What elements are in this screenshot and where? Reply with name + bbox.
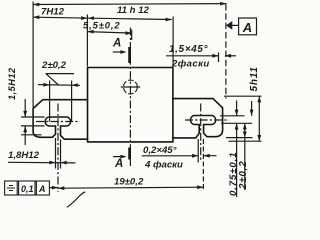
center line vertical through hole (129, 28, 131, 167)
svg-text:11 h 12: 11 h 12 (117, 5, 149, 16)
0,75 arrows (235, 110, 239, 116)
svg-text:4 фаски: 4 фаски (144, 160, 183, 171)
5h11 dimension vertical (258, 96, 260, 141)
svg-text:1,5×45°: 1,5×45° (169, 44, 208, 55)
svg-text:7H12: 7H12 (41, 7, 65, 18)
inspection squiggle (67, 192, 85, 208)
1,5x45 right tail (225, 55, 236, 57)
section plane thick strokes (128, 47, 131, 160)
2+-0,2 converging arrows (43, 83, 49, 87)
7H12 arrows (33, 15, 39, 19)
svg-text:19±0,2: 19±0,2 (114, 177, 144, 188)
5,5 right extension tick (131, 30, 133, 41)
tolerance frame bottom left (5, 181, 50, 195)
overall top dimension line (33, 3, 226, 6)
1,5H12 arrows (23, 111, 27, 117)
0,2x45 converging arrows (192, 154, 198, 158)
11h12 arrows (88, 16, 94, 20)
overall dim arrows (33, 3, 39, 7)
svg-text:1,8H12: 1,8H12 (8, 150, 40, 161)
1,5H12 dimension line vertical (24, 99, 26, 145)
section line bottom arrow shaft (113, 156, 124, 158)
extra right dim line upper (251, 101, 253, 116)
right slot edge extensions down (197, 139, 199, 163)
2+-0,2 extension lines (50, 81, 72, 122)
1,5x45 converging arrows (212, 54, 218, 58)
svg-text:A: A (38, 184, 46, 194)
hole crosshair horizontal (121, 86, 140, 88)
1,5x45 short ext tick (218, 53, 220, 63)
datum frame box A (239, 18, 257, 35)
left ear slot obround (45, 117, 70, 126)
body left edge extension (86, 15, 88, 67)
right ear outline (173, 99, 223, 138)
section line top arrow shaft (113, 51, 124, 53)
svg-text:0,2×45°: 0,2×45° (143, 145, 177, 156)
7H12 / 11h12 chained dimension line (33, 17, 172, 19)
right ext line ear bottom (226, 137, 253, 139)
1,8H12 dimension line (8, 161, 75, 164)
frame leader arrow (52, 186, 58, 190)
svg-text:2±0,2: 2±0,2 (238, 161, 249, 190)
datum extension dashed line right (225, 4, 227, 99)
thin line work (8, 2, 262, 208)
svg-text:2фаски: 2фаски (171, 59, 210, 70)
2+-0,2 right dimension vertical (244, 123, 246, 190)
right ext line body bottom (229, 140, 262, 142)
5h11 arrows (257, 96, 261, 102)
datum link line (232, 24, 239, 26)
0,75 dimension vertical (236, 101, 238, 198)
right slot edge ext extended to 19-dim (202, 139, 204, 191)
section arrows (120, 50, 126, 54)
0,2x45 underline leader (142, 155, 217, 157)
right slot axis horizontal (185, 119, 229, 121)
5,5 arrows (87, 30, 93, 34)
right ext line obround top (220, 115, 245, 117)
right slot axis vertical (200, 104, 202, 163)
extra right dim arrow (250, 110, 254, 116)
left slot axis horizontal (36, 121, 80, 123)
right ear slot obround (190, 116, 215, 125)
symmetry symbol (7, 186, 15, 191)
svg-text:5h11: 5h11 (249, 66, 260, 91)
1,5x45 note shelf (166, 55, 219, 57)
svg-text:2±0,2: 2±0,2 (41, 60, 67, 71)
arrowheads (23, 2, 261, 190)
svg-text:0,1: 0,1 (21, 184, 34, 194)
left ear outline (33, 100, 87, 140)
datum triangle (226, 21, 232, 30)
svg-text:A: A (114, 158, 123, 170)
left part edge extension x=33 (32, 2, 34, 108)
2+-0,2 dimension line (38, 84, 80, 87)
svg-text:A: A (112, 38, 121, 50)
hidden hole dashed circle (123, 80, 137, 94)
left slot axis vertical (57, 104, 59, 193)
5,5 dimension line (87, 32, 131, 33)
svg-text:A: A (242, 20, 252, 35)
svg-text:5,5±0,2: 5,5±0,2 (83, 20, 121, 31)
right ext line ear top (224, 95, 262, 97)
19 dimension line (58, 187, 203, 188)
right ext line obround bottom (221, 122, 252, 124)
left slot edge extensions down (56, 138, 61, 169)
body right edge extension (172, 17, 174, 67)
2+-0,2 shelf and leader (46, 74, 75, 85)
tolerance frame leader (49, 187, 58, 189)
1,8H12 converging arrows (49, 161, 55, 165)
19 dim arrows (58, 186, 64, 190)
svg-text:1,5H12: 1,5H12 (7, 67, 17, 100)
2 right arrows (243, 123, 247, 129)
part outline: body (88, 68, 173, 142)
1,5H12 extension lines (21, 117, 45, 135)
